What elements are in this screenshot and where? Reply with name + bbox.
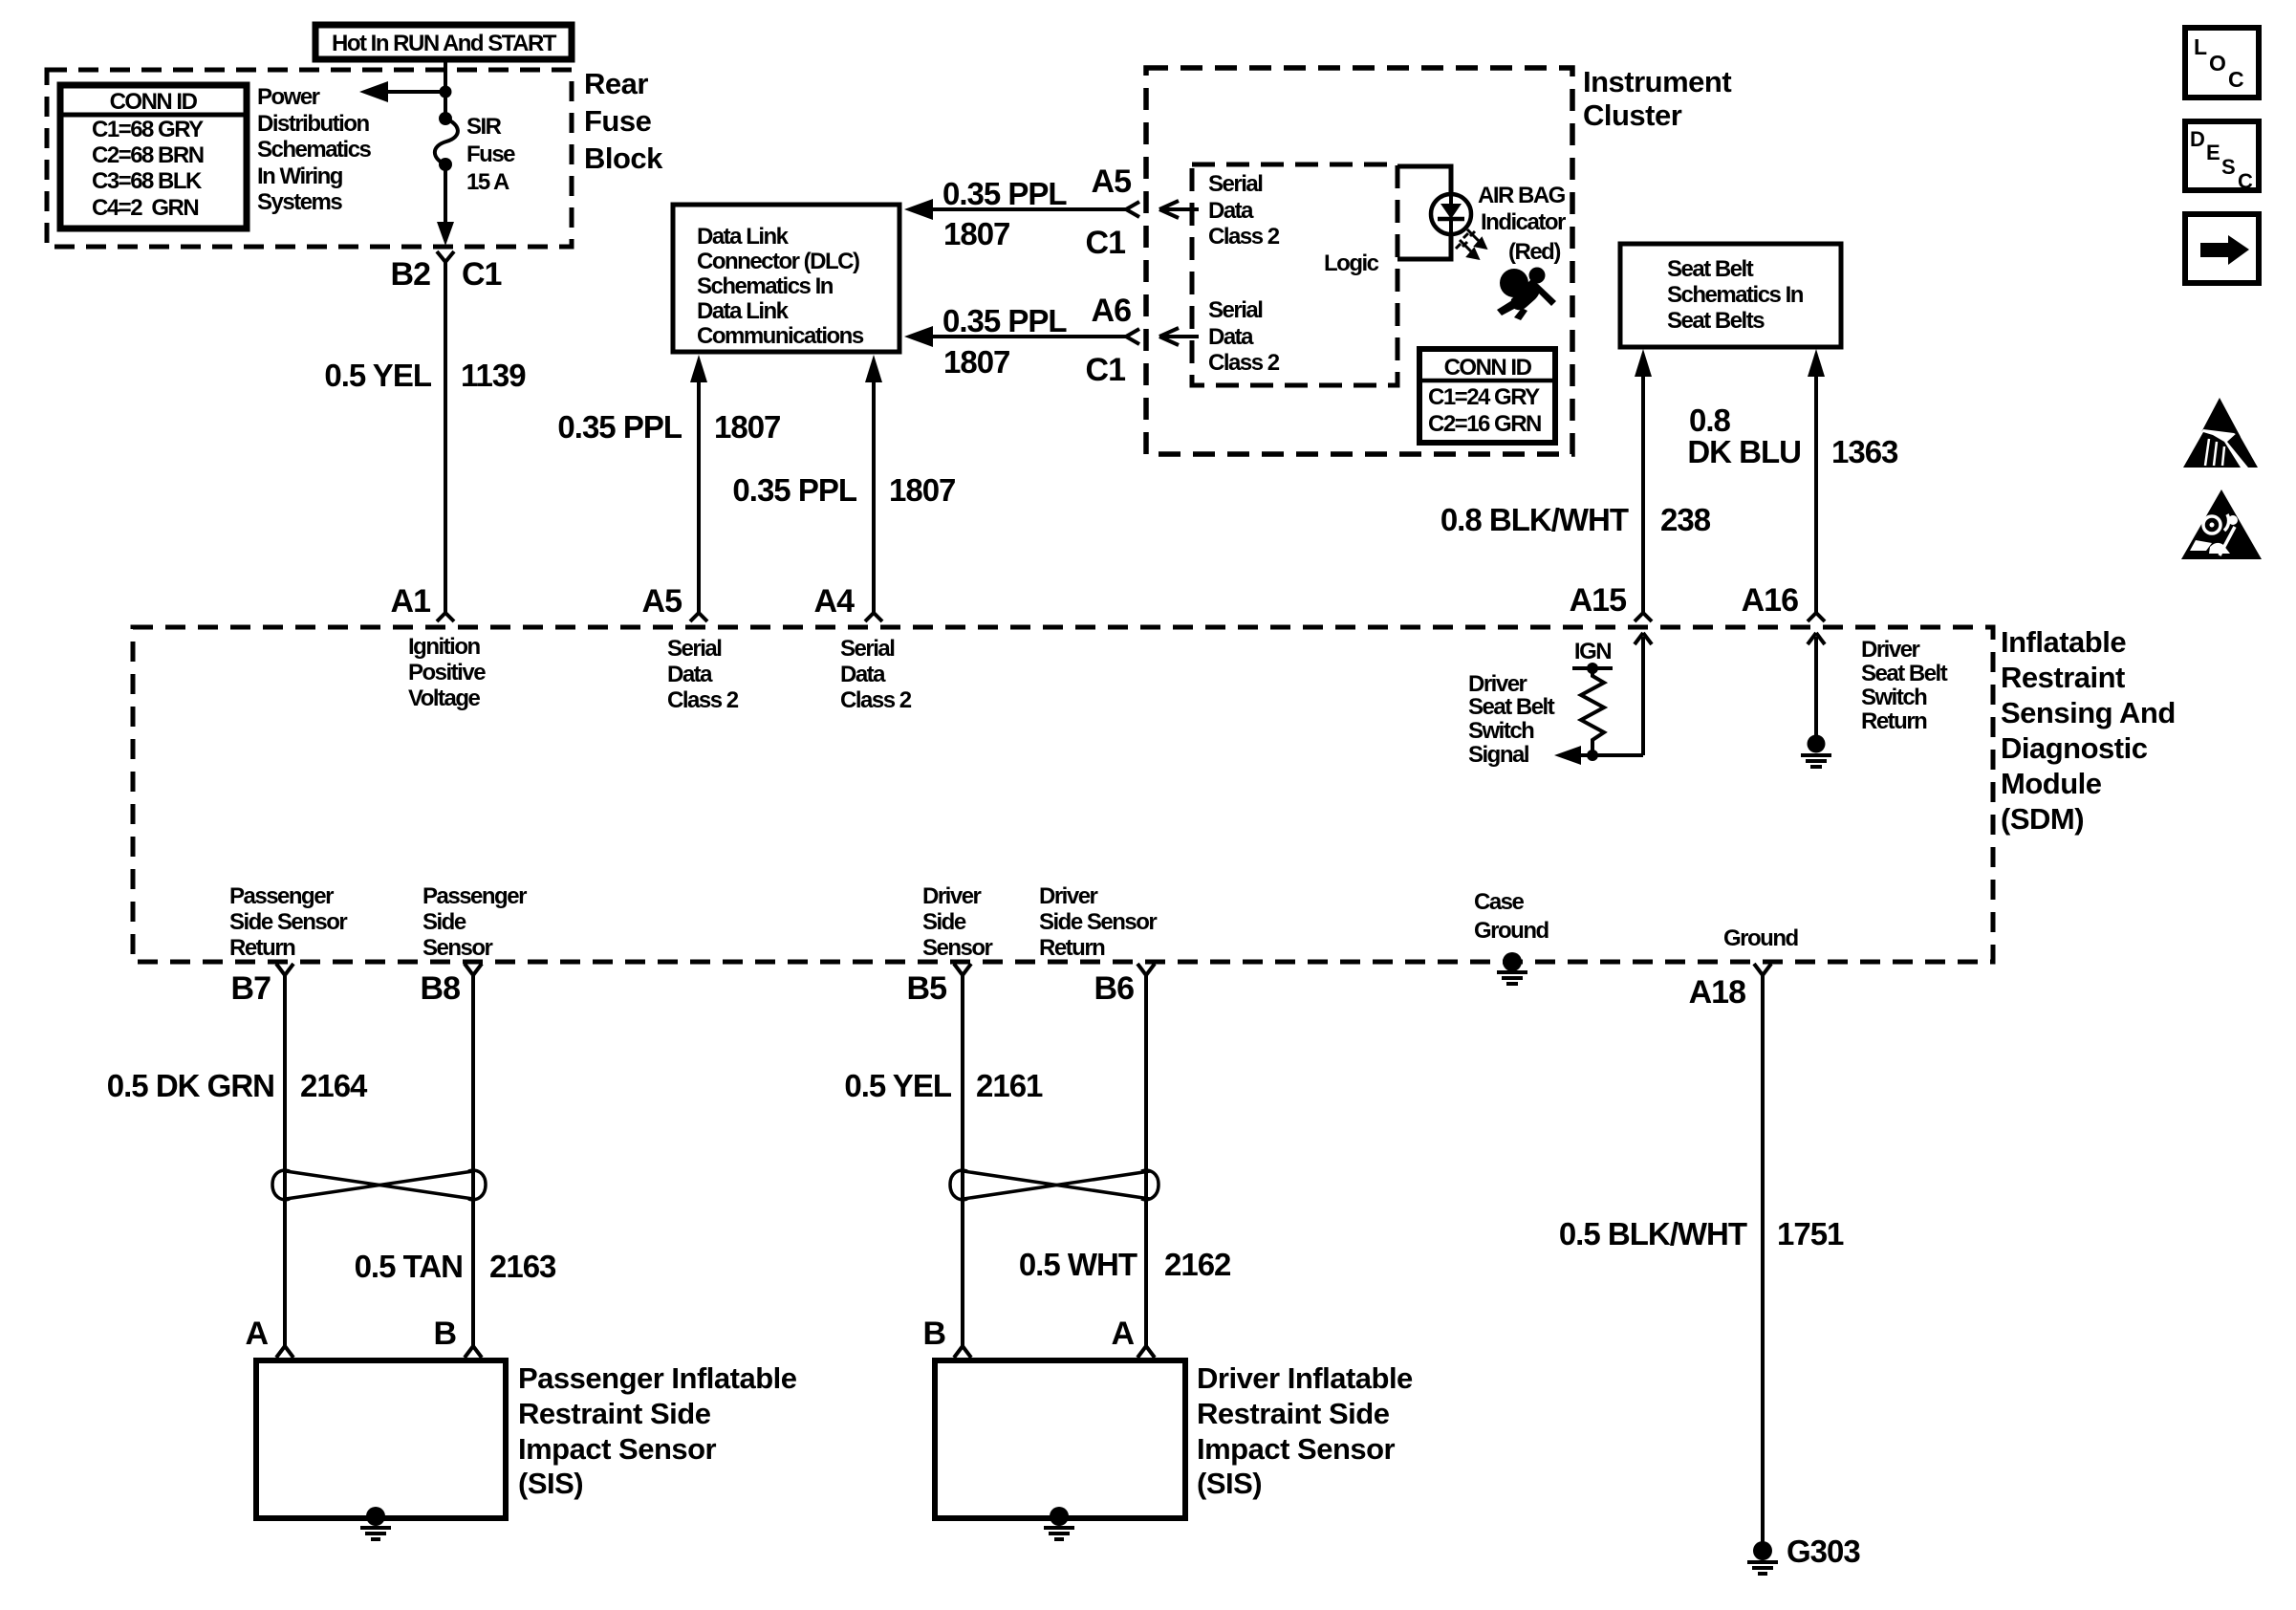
DLC box Data Link Connector (673, 205, 899, 352)
svg-text:0.35 PPL: 0.35 PPL (732, 472, 856, 508)
svg-text:C1: C1 (1086, 352, 1126, 388)
svg-text:Ignition: Ignition (408, 634, 480, 660)
svg-text:D: D (2190, 127, 2205, 151)
svg-text:Serial: Serial (1208, 297, 1262, 323)
svg-text:Data Link: Data Link (697, 298, 790, 324)
svg-text:Passenger Inflatable: Passenger Inflatable (518, 1361, 797, 1395)
LED emission arrows (1456, 229, 1485, 258)
svg-text:Distribution: Distribution (257, 111, 369, 137)
svg-text:Side: Side (422, 909, 466, 935)
svg-text:Schematics In: Schematics In (697, 273, 834, 299)
wire arrow to power distribution (380, 90, 445, 94)
svg-text:B6: B6 (1094, 970, 1135, 1007)
pin A1 fork at SDM (437, 613, 454, 621)
fuse SIR Fuse 15 A (435, 112, 515, 195)
svg-text:238: 238 (1660, 502, 1711, 537)
svg-text:Cluster: Cluster (1583, 98, 1682, 132)
svg-text:2163: 2163 (489, 1249, 556, 1284)
node serial data class 2 (lower) (1208, 297, 1280, 376)
wire A15 internal with up arrow (1592, 633, 1652, 755)
svg-text:C1=24 GRY: C1=24 GRY (1428, 384, 1540, 410)
svg-text:Systems: Systems (257, 189, 342, 215)
svg-text:Connector (DLC): Connector (DLC) (697, 249, 859, 274)
svg-text:A16: A16 (1742, 582, 1798, 619)
svg-text:Restraint Side: Restraint Side (518, 1397, 711, 1430)
label AIR BAG Indicator (Red) (1478, 183, 1566, 265)
ground G303 (1747, 1534, 1860, 1574)
svg-text:B2: B2 (391, 256, 431, 293)
svg-text:DK BLU: DK BLU (1687, 434, 1801, 469)
wire B7 passenger side sensor return (107, 964, 368, 1358)
svg-text:Positive: Positive (408, 660, 486, 685)
svg-text:Logic: Logic (1324, 250, 1379, 276)
svg-text:O: O (2209, 51, 2226, 76)
svg-text:Side: Side (922, 909, 966, 935)
wire 0.5 YEL 1139 (444, 262, 447, 613)
seat belt schematics box (1620, 244, 1841, 347)
svg-text:A: A (245, 1316, 268, 1352)
svg-text:A4: A4 (814, 583, 856, 620)
power feed box "Hot In RUN And START" (315, 25, 572, 59)
label Driver Side Sensor Return (1039, 883, 1157, 961)
svg-text:Schematics In: Schematics In (1667, 282, 1804, 308)
label Driver Seat Belt Switch Signal (1468, 671, 1555, 768)
svg-text:2162: 2162 (1164, 1247, 1231, 1282)
label Passenger Side Sensor Return (229, 883, 347, 961)
svg-text:1363: 1363 (1831, 434, 1898, 469)
svg-text:Sensor: Sensor (922, 935, 993, 961)
svg-text:C3=68 BLK: C3=68 BLK (92, 168, 203, 194)
svg-text:Serial: Serial (667, 636, 721, 662)
svg-text:Seat Belt: Seat Belt (1861, 661, 1948, 686)
svg-text:Ground: Ground (1474, 918, 1549, 944)
label Driver Seat Belt Switch Return (1861, 637, 1948, 734)
svg-text:1807: 1807 (943, 344, 1009, 380)
twisted pair symbol driver (950, 1170, 1159, 1200)
wire serial data A6 to DLC (lower horizontal) (904, 293, 1139, 388)
wire LED loop from logic (1397, 166, 1451, 259)
label Driver Inflatable Restraint Side Impact Sensor (SIS) (1197, 1361, 1413, 1500)
svg-text:Power: Power (257, 84, 320, 110)
instrument cluster dashed box (1146, 68, 1572, 454)
logic module inner dashed box (1192, 164, 1397, 385)
svg-text:Ground: Ground (1723, 925, 1798, 951)
svg-text:A15: A15 (1570, 582, 1626, 619)
svg-text:Switch: Switch (1861, 685, 1927, 710)
svg-text:Class 2: Class 2 (840, 687, 912, 713)
svg-text:Seat Belt: Seat Belt (1468, 694, 1555, 720)
svg-text:Module: Module (2001, 767, 2102, 800)
svg-text:C1: C1 (1086, 225, 1126, 261)
svg-text:0.5 TAN: 0.5 TAN (355, 1249, 463, 1284)
case ground symbol on SDM edge (1474, 889, 1549, 984)
wire A5 serial data vertical to DLC (557, 355, 780, 621)
svg-text:C1=68 GRY: C1=68 GRY (92, 117, 204, 142)
svg-text:Serial: Serial (1208, 171, 1262, 197)
svg-text:Fuse: Fuse (466, 141, 515, 167)
pin A5 label Serial Data Class 2 (667, 636, 739, 713)
svg-text:Rear: Rear (584, 67, 648, 100)
wire serial data A5 to DLC (upper horizontal) (904, 163, 1139, 261)
svg-text:2164: 2164 (300, 1068, 368, 1103)
svg-text:1139: 1139 (461, 358, 526, 393)
svg-text:G303: G303 (1787, 1534, 1860, 1569)
label Passenger Inflatable Restraint Side Impact Sensor (SIS) (518, 1361, 797, 1500)
svg-text:Data: Data (1208, 324, 1254, 350)
svg-text:Return: Return (229, 935, 295, 961)
svg-text:0.5 YEL: 0.5 YEL (324, 358, 431, 393)
icon DESC hotlink box (2185, 121, 2259, 193)
svg-text:(SDM): (SDM) (2001, 802, 2084, 836)
svg-text:Restraint: Restraint (2001, 661, 2125, 694)
svg-text:Diagnostic: Diagnostic (2001, 731, 2148, 765)
svg-text:1807: 1807 (889, 472, 955, 508)
svg-text:B8: B8 (421, 970, 461, 1007)
wire B8 passenger side sensor (355, 964, 556, 1358)
note Power Distribution Schematics In Wiring Systems (257, 84, 372, 215)
wire A16 to seat belt box 0.8 DK BLU 1363 (1687, 349, 1898, 621)
svg-text:Switch: Switch (1468, 718, 1534, 744)
svg-text:Inflatable: Inflatable (2001, 625, 2126, 659)
svg-text:Serial: Serial (840, 636, 894, 662)
icon air bag pictograph (1497, 268, 1556, 321)
wire serial data class 2 stub inside cluster (lower) (1159, 328, 1199, 345)
svg-text:Hot In RUN And START: Hot In RUN And START (332, 31, 557, 56)
svg-text:B5: B5 (907, 970, 947, 1007)
ground at passenger SIS (360, 1507, 391, 1539)
pin A4 label Serial Data Class 2 (840, 636, 912, 713)
svg-text:C1: C1 (462, 256, 502, 293)
svg-text:Instrument: Instrument (1583, 65, 1731, 98)
wire A16 internal to case ground (1808, 633, 1825, 736)
svg-text:Passenger: Passenger (229, 883, 334, 909)
svg-text:0.8 BLK/WHT: 0.8 BLK/WHT (1440, 502, 1629, 537)
pin A1 label Ignition Positive Voltage (408, 634, 486, 711)
svg-text:L: L (2194, 34, 2207, 59)
svg-text:CONN ID: CONN ID (110, 89, 198, 115)
svg-text:0.35 PPL: 0.35 PPL (557, 409, 682, 445)
svg-text:Side Sensor: Side Sensor (1039, 909, 1157, 935)
svg-text:Data: Data (840, 662, 886, 687)
svg-text:A: A (1111, 1316, 1134, 1352)
node junction dot (440, 86, 452, 98)
svg-text:Seat Belt: Seat Belt (1667, 256, 1754, 282)
svg-text:0.5 BLK/WHT: 0.5 BLK/WHT (1559, 1216, 1747, 1251)
twisted pair symbol passenger (272, 1170, 486, 1200)
svg-text:Schematics: Schematics (257, 137, 372, 163)
driver SIS box (922, 1316, 1185, 1518)
svg-text:0.8: 0.8 (1689, 402, 1731, 438)
svg-text:Driver: Driver (1861, 637, 1920, 663)
SDM dashed box (Inflatable Restraint Sensing and Diagnostic Module) (133, 627, 1993, 962)
svg-text:0.5 WHT: 0.5 WHT (1019, 1247, 1137, 1282)
svg-text:C: C (2228, 67, 2244, 92)
ground symbol internal A16 (1801, 735, 1831, 768)
svg-text:Indicator: Indicator (1481, 209, 1566, 235)
svg-text:AIR BAG: AIR BAG (1478, 183, 1566, 208)
rear fuse block dashed box (47, 70, 572, 247)
wire A15 to seat belt box 0.8 BLK/WHT 238 (1440, 349, 1711, 621)
svg-text:(SIS): (SIS) (1197, 1467, 1262, 1500)
svg-text:Data Link: Data Link (697, 224, 790, 250)
svg-text:Impact Sensor: Impact Sensor (1197, 1432, 1396, 1466)
connector ID table C1=24 GRY (1419, 349, 1555, 443)
wire fuse output down (444, 164, 447, 229)
wire serial data class 2 stub inside cluster (upper) (1159, 201, 1199, 218)
svg-text:Case: Case (1474, 889, 1525, 915)
label Driver Side Sensor (922, 883, 993, 961)
svg-text:B: B (922, 1316, 945, 1352)
svg-text:Passenger: Passenger (422, 883, 527, 909)
resistor seat belt switch pull-up (1572, 639, 1613, 761)
svg-text:Return: Return (1039, 935, 1105, 961)
svg-text:Class 2: Class 2 (1208, 350, 1280, 376)
svg-text:0.35 PPL: 0.35 PPL (942, 303, 1067, 338)
svg-text:Sensor: Sensor (422, 935, 493, 961)
svg-text:1807: 1807 (714, 409, 780, 445)
svg-text:Class 2: Class 2 (1208, 224, 1280, 250)
svg-text:CONN ID: CONN ID (1444, 355, 1532, 381)
wire ignition feed vertical (444, 59, 447, 119)
svg-text:0.5 DK GRN: 0.5 DK GRN (107, 1068, 274, 1103)
svg-text:E: E (2206, 141, 2220, 164)
svg-text:SIR: SIR (466, 114, 502, 140)
svg-text:0.5 YEL: 0.5 YEL (844, 1068, 951, 1103)
svg-text:Sensing And: Sensing And (2001, 696, 2176, 729)
svg-text:B7: B7 (231, 970, 271, 1007)
svg-text:Return: Return (1861, 708, 1927, 734)
svg-text:Impact Sensor: Impact Sensor (518, 1432, 717, 1466)
svg-text:C2=68 BRN: C2=68 BRN (92, 142, 204, 168)
label Inflatable Restraint Sensing And Diagnostic Module (SDM) (2001, 625, 2176, 836)
passenger SIS box (245, 1316, 506, 1518)
wire A4 serial data vertical to DLC (732, 355, 955, 621)
svg-text:2161: 2161 (976, 1068, 1043, 1103)
connector ID table C1=68 GRY (60, 85, 247, 228)
svg-text:(Red): (Red) (1508, 239, 1560, 265)
svg-text:15 A: 15 A (466, 169, 509, 195)
icon ESD warning triangle (2183, 398, 2258, 468)
svg-text:A18: A18 (1689, 974, 1745, 1011)
svg-text:Side Sensor: Side Sensor (229, 909, 347, 935)
svg-text:Fuse: Fuse (584, 104, 652, 138)
wire B5 driver side sensor (844, 964, 1043, 1358)
svg-text:1807: 1807 (943, 216, 1009, 251)
svg-text:Communications: Communications (697, 323, 864, 349)
svg-text:Seat Belts: Seat Belts (1667, 308, 1765, 334)
ground at driver SIS (1044, 1507, 1074, 1539)
connector B2/C1 fork (437, 251, 454, 262)
svg-text:1751: 1751 (1777, 1216, 1844, 1251)
svg-text:Signal: Signal (1468, 742, 1528, 768)
icon forward arrow box (2185, 214, 2259, 283)
icon air bag warning triangle (2181, 490, 2262, 559)
svg-text:C2=16 GRN: C2=16 GRN (1428, 411, 1541, 437)
icon LOC hotlink box (2185, 28, 2259, 98)
svg-text:B: B (433, 1316, 456, 1352)
svg-text:Block: Block (584, 141, 663, 175)
svg-text:C4=2 GRN: C4=2 GRN (92, 195, 198, 221)
svg-text:In Wiring: In Wiring (257, 163, 343, 189)
svg-text:Data: Data (1208, 198, 1254, 224)
svg-text:A5: A5 (1092, 163, 1132, 200)
svg-text:A1: A1 (391, 583, 431, 620)
svg-text:Driver: Driver (922, 883, 982, 909)
svg-text:Driver Inflatable: Driver Inflatable (1197, 1361, 1413, 1395)
wire arrow driver seat belt switch signal (1554, 746, 1592, 765)
svg-text:Voltage: Voltage (408, 685, 481, 711)
svg-text:A6: A6 (1092, 293, 1132, 329)
wire B6 driver side sensor return (1019, 964, 1231, 1358)
wire A18 ground 0.5 BLK/WHT 1751 (1559, 964, 1844, 1542)
svg-text:S: S (2221, 155, 2236, 179)
LED air bag indicator lamp (1431, 194, 1471, 234)
svg-text:Restraint Side: Restraint Side (1197, 1397, 1390, 1430)
svg-text:Driver: Driver (1039, 883, 1098, 909)
svg-text:Class 2: Class 2 (667, 687, 739, 713)
label Passenger Side Sensor (422, 883, 527, 961)
svg-text:Driver: Driver (1468, 671, 1527, 697)
svg-text:C: C (2238, 169, 2253, 193)
svg-text:A5: A5 (642, 583, 682, 620)
node serial data class 2 (upper) (1208, 171, 1280, 250)
svg-text:IGN: IGN (1574, 639, 1611, 664)
svg-text:0.35 PPL: 0.35 PPL (942, 176, 1067, 211)
svg-text:Data: Data (667, 662, 713, 687)
svg-text:(SIS): (SIS) (518, 1467, 583, 1500)
